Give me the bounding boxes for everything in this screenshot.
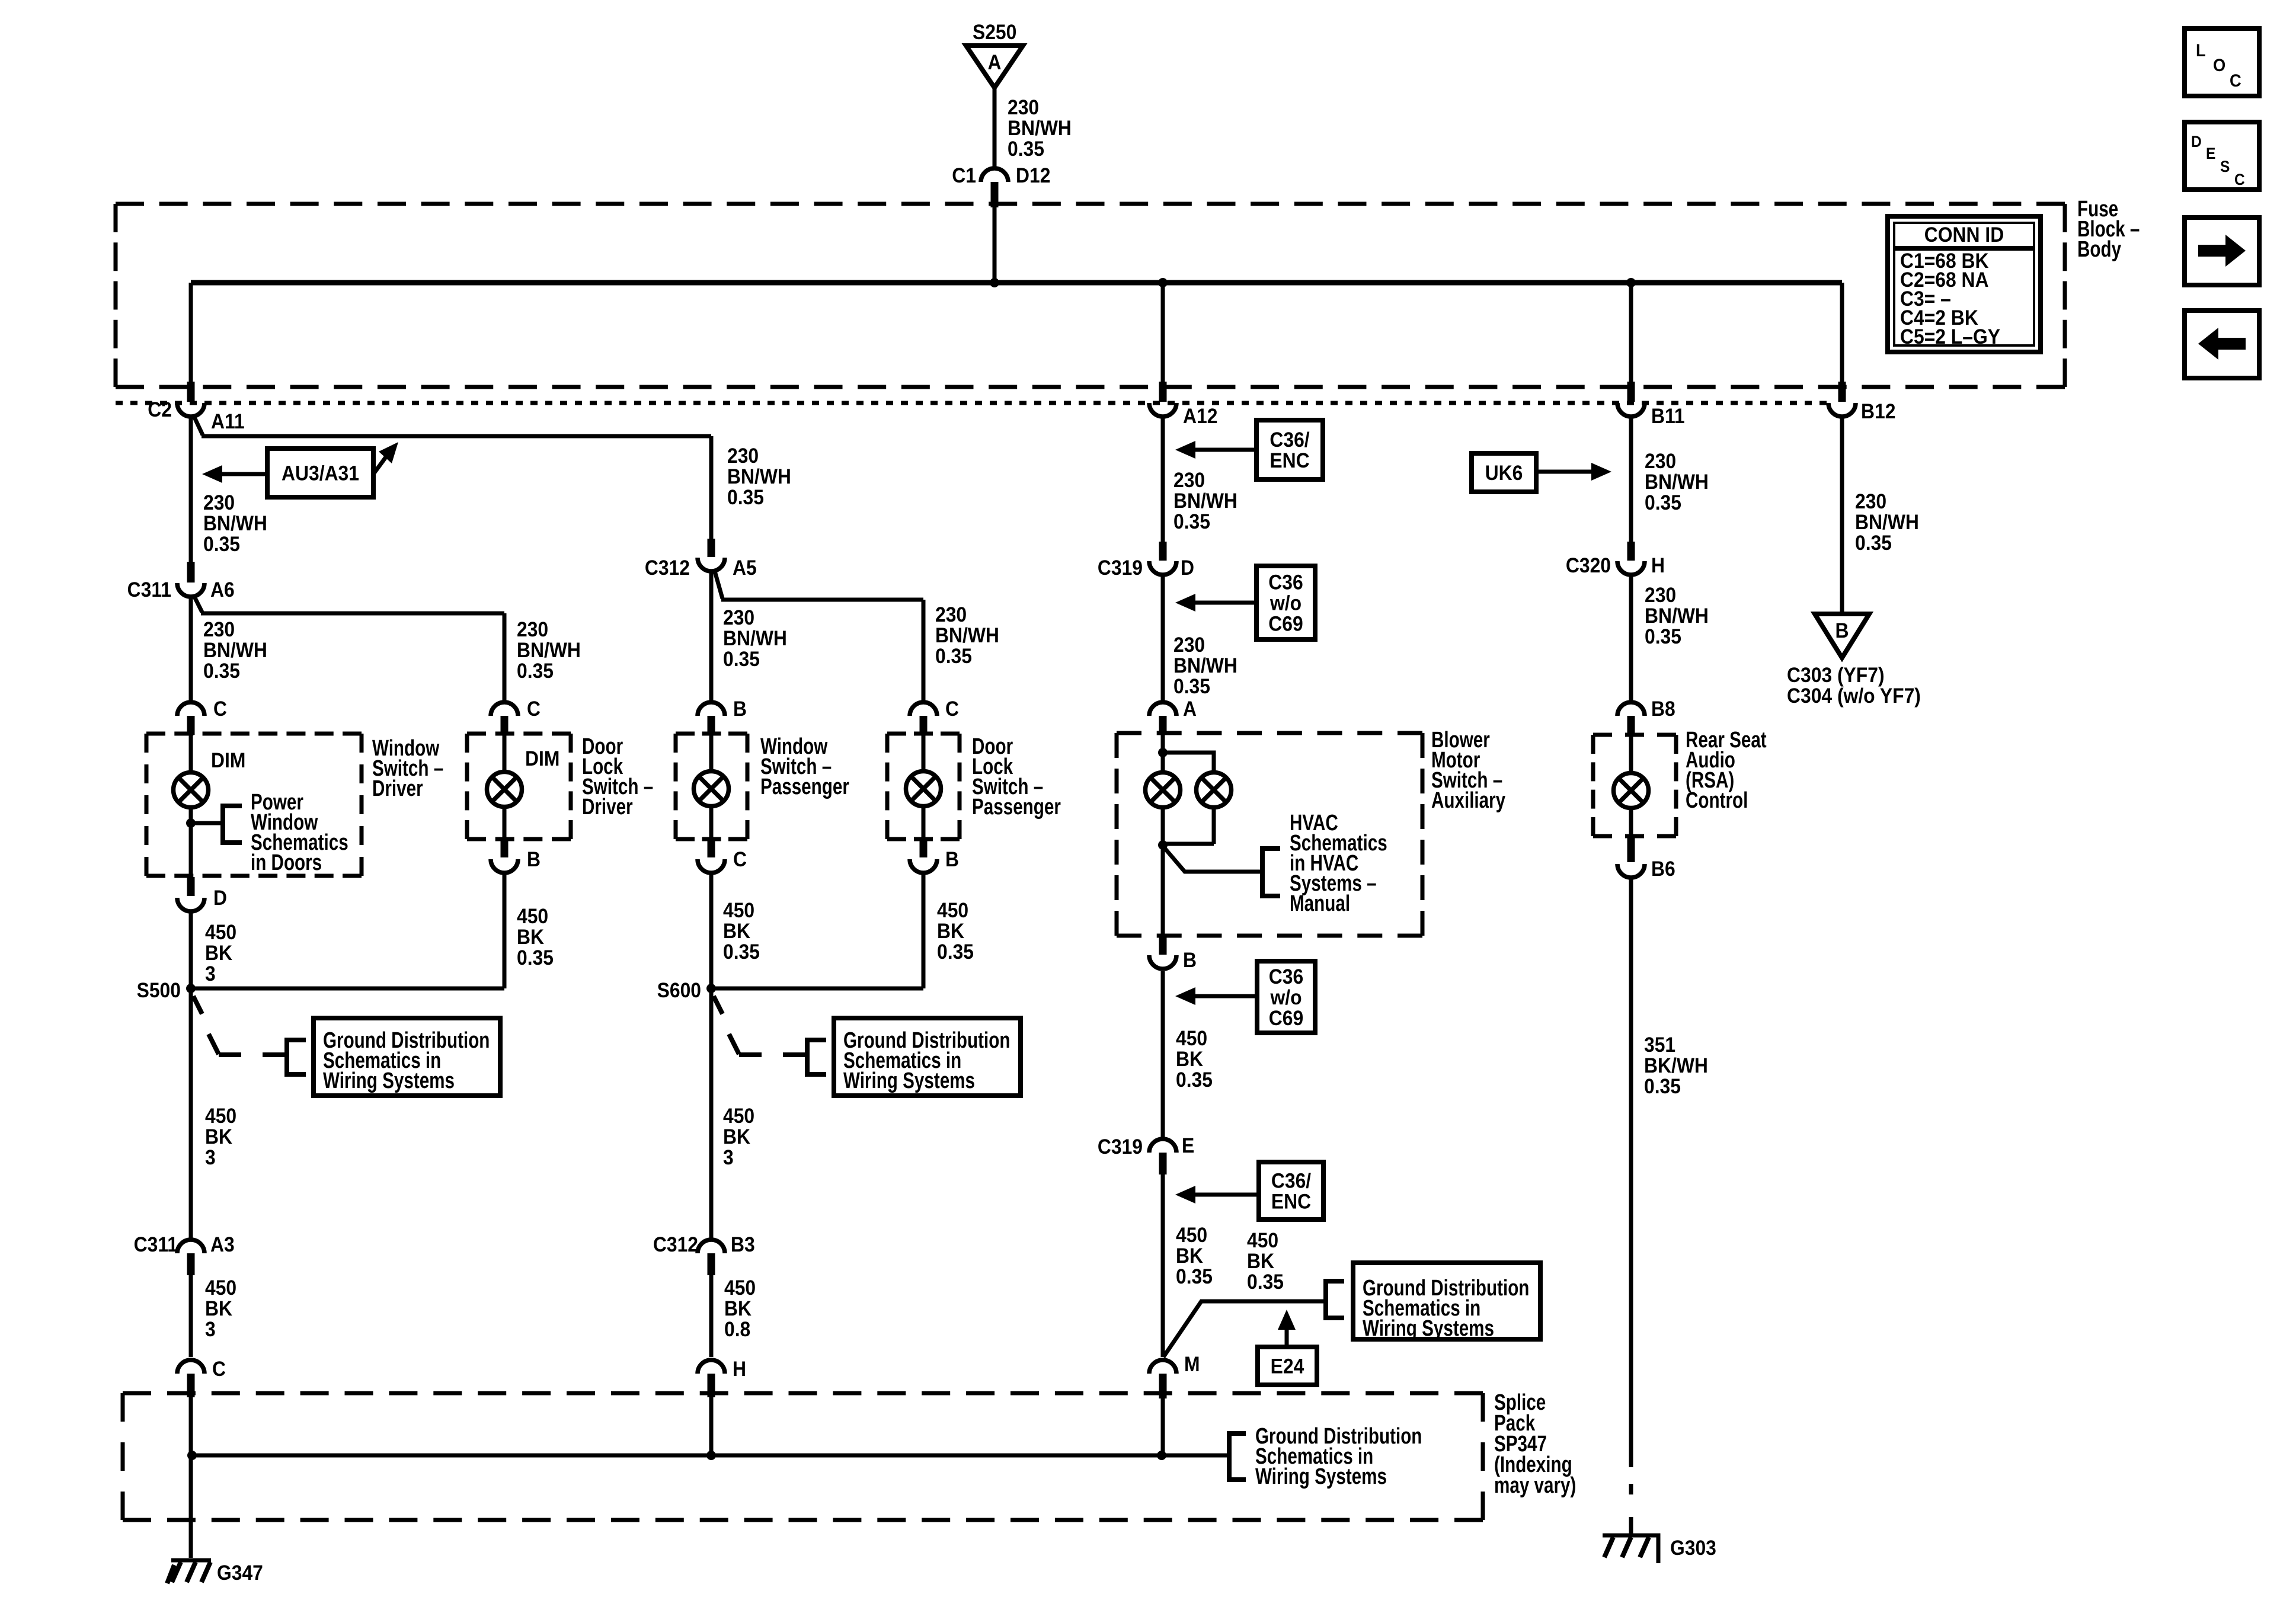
svg-text:D: D xyxy=(213,887,227,910)
svg-text:C69: C69 xyxy=(1268,613,1303,636)
svg-text:0.35: 0.35 xyxy=(1247,1271,1284,1294)
svg-text:H: H xyxy=(1651,555,1665,578)
svg-text:Wiring Systems: Wiring Systems xyxy=(1255,1464,1387,1489)
svg-text:C36: C36 xyxy=(1269,966,1303,989)
svg-text:A6: A6 xyxy=(210,579,235,602)
svg-text:230: 230 xyxy=(1855,491,1886,514)
svg-text:C: C xyxy=(733,849,747,872)
svg-text:3: 3 xyxy=(205,1318,216,1342)
svg-text:S: S xyxy=(2220,158,2230,175)
svg-text:C: C xyxy=(527,698,541,721)
svg-text:BK: BK xyxy=(1176,1245,1203,1268)
svg-text:230: 230 xyxy=(203,619,235,642)
svg-text:450: 450 xyxy=(205,1105,236,1128)
svg-text:E: E xyxy=(1182,1135,1194,1158)
svg-text:BN/WH: BN/WH xyxy=(203,513,267,536)
svg-text:BN/WH: BN/WH xyxy=(1855,511,1919,535)
svg-text:0.35: 0.35 xyxy=(723,941,760,964)
svg-text:BK: BK xyxy=(937,920,964,943)
svg-text:C: C xyxy=(945,698,959,721)
svg-text:DIM: DIM xyxy=(525,748,559,771)
svg-text:B6: B6 xyxy=(1651,858,1675,881)
svg-text:230: 230 xyxy=(727,445,759,468)
svg-text:A11: A11 xyxy=(211,411,245,434)
svg-text:Wiring Systems: Wiring Systems xyxy=(323,1068,455,1093)
svg-text:E24: E24 xyxy=(1271,1355,1304,1378)
svg-text:450: 450 xyxy=(205,921,236,945)
svg-text:0.35: 0.35 xyxy=(1008,138,1044,161)
svg-text:Driver: Driver xyxy=(372,776,423,801)
svg-text:450: 450 xyxy=(723,1105,754,1128)
svg-text:BN/WH: BN/WH xyxy=(1173,655,1237,678)
svg-text:0.35: 0.35 xyxy=(723,648,760,671)
svg-text:Passenger: Passenger xyxy=(760,775,849,799)
svg-text:DIM: DIM xyxy=(211,750,245,773)
svg-text:450: 450 xyxy=(1176,1224,1207,1247)
svg-text:0.35: 0.35 xyxy=(935,645,972,668)
svg-text:C5=2 L–GY: C5=2 L–GY xyxy=(1900,326,2000,349)
svg-text:0.35: 0.35 xyxy=(1176,1069,1213,1092)
svg-text:C303 (YF7): C303 (YF7) xyxy=(1787,664,1885,687)
svg-text:3: 3 xyxy=(205,963,216,986)
svg-text:450: 450 xyxy=(205,1277,236,1300)
svg-text:B: B xyxy=(1183,949,1197,972)
svg-text:B3: B3 xyxy=(731,1234,755,1257)
svg-text:BK: BK xyxy=(724,1298,752,1321)
svg-text:UK6: UK6 xyxy=(1485,462,1523,485)
svg-text:BN/WH: BN/WH xyxy=(203,639,267,663)
svg-text:C36/: C36/ xyxy=(1271,1170,1311,1193)
svg-text:450: 450 xyxy=(723,900,754,923)
svg-text:BK: BK xyxy=(205,942,232,965)
svg-text:C: C xyxy=(2230,71,2241,91)
svg-text:450: 450 xyxy=(517,905,548,929)
svg-text:S600: S600 xyxy=(657,980,701,1003)
svg-text:B11: B11 xyxy=(1651,405,1685,428)
svg-text:B12: B12 xyxy=(1861,401,1895,424)
svg-text:BK: BK xyxy=(723,1126,750,1149)
svg-text:450: 450 xyxy=(724,1277,756,1300)
svg-text:B: B xyxy=(945,849,959,872)
svg-text:0.35: 0.35 xyxy=(517,947,554,970)
svg-text:E: E xyxy=(2206,145,2215,162)
svg-text:C2: C2 xyxy=(148,399,172,422)
svg-text:BN/WH: BN/WH xyxy=(935,625,999,648)
svg-text:B8: B8 xyxy=(1651,698,1675,721)
svg-text:Wiring Systems: Wiring Systems xyxy=(1363,1316,1494,1341)
svg-text:230: 230 xyxy=(935,604,967,627)
svg-text:may vary): may vary) xyxy=(1494,1473,1576,1498)
svg-text:BN/WH: BN/WH xyxy=(1008,117,1072,140)
svg-text:BK/WH: BK/WH xyxy=(1644,1055,1708,1078)
svg-text:D: D xyxy=(1181,557,1194,580)
svg-text:BK: BK xyxy=(205,1298,232,1321)
svg-text:B: B xyxy=(527,849,541,872)
svg-text:230: 230 xyxy=(723,607,754,630)
svg-text:0.35: 0.35 xyxy=(1173,511,1210,534)
svg-text:C1: C1 xyxy=(952,165,976,188)
svg-text:450: 450 xyxy=(1176,1028,1207,1051)
svg-text:BN/WH: BN/WH xyxy=(517,639,581,663)
svg-text:351: 351 xyxy=(1644,1034,1675,1057)
svg-text:S500: S500 xyxy=(137,980,181,1003)
svg-text:BK: BK xyxy=(1176,1048,1203,1071)
svg-text:ENC: ENC xyxy=(1269,450,1309,473)
svg-text:3: 3 xyxy=(205,1147,216,1170)
svg-text:B: B xyxy=(733,698,747,721)
svg-text:0.35: 0.35 xyxy=(517,660,554,683)
svg-text:H: H xyxy=(733,1358,746,1381)
svg-text:0.35: 0.35 xyxy=(1173,676,1210,699)
svg-text:BK: BK xyxy=(517,926,544,949)
svg-text:C312: C312 xyxy=(653,1234,698,1257)
svg-text:C69: C69 xyxy=(1269,1007,1303,1030)
svg-text:0.35: 0.35 xyxy=(937,941,974,964)
svg-text:G303: G303 xyxy=(1670,1537,1716,1560)
svg-text:L: L xyxy=(2196,41,2206,60)
svg-text:230: 230 xyxy=(203,492,235,515)
svg-text:C312: C312 xyxy=(645,557,690,580)
svg-text:BN/WH: BN/WH xyxy=(1645,471,1709,494)
svg-text:0.35: 0.35 xyxy=(1855,532,1892,555)
svg-text:A: A xyxy=(1183,698,1197,721)
svg-text:Wiring Systems: Wiring Systems xyxy=(843,1068,975,1093)
svg-text:C304 (w/o YF7): C304 (w/o YF7) xyxy=(1787,685,1921,708)
svg-text:D12: D12 xyxy=(1016,165,1050,188)
svg-text:BN/WH: BN/WH xyxy=(723,628,787,651)
svg-text:ENC: ENC xyxy=(1271,1190,1311,1214)
svg-text:BK: BK xyxy=(1247,1250,1274,1273)
svg-text:450: 450 xyxy=(1247,1230,1278,1253)
svg-text:0.35: 0.35 xyxy=(1645,492,1681,515)
svg-text:230: 230 xyxy=(1173,469,1205,492)
svg-text:0.35: 0.35 xyxy=(1645,626,1681,649)
svg-text:C319: C319 xyxy=(1098,557,1143,580)
svg-text:450: 450 xyxy=(937,900,968,923)
svg-text:O: O xyxy=(2213,56,2225,75)
svg-text:C: C xyxy=(212,1358,226,1381)
svg-text:A12: A12 xyxy=(1183,405,1217,428)
svg-text:BN/WH: BN/WH xyxy=(1173,490,1237,513)
svg-text:0.35: 0.35 xyxy=(1644,1076,1681,1099)
svg-text:Body: Body xyxy=(2077,237,2121,262)
svg-text:C320: C320 xyxy=(1566,555,1611,578)
svg-text:Driver: Driver xyxy=(582,795,633,820)
svg-text:3: 3 xyxy=(723,1147,734,1170)
svg-text:A5: A5 xyxy=(733,557,757,580)
svg-text:w/o: w/o xyxy=(1269,592,1302,615)
svg-text:BK: BK xyxy=(723,920,750,943)
svg-text:0.35: 0.35 xyxy=(203,533,240,556)
svg-text:A3: A3 xyxy=(210,1234,235,1257)
svg-text:230: 230 xyxy=(517,619,548,642)
svg-text:Passenger: Passenger xyxy=(972,795,1061,820)
svg-text:C311: C311 xyxy=(127,579,171,602)
svg-text:B: B xyxy=(1835,620,1849,643)
svg-text:CONN ID: CONN ID xyxy=(1924,224,2004,247)
svg-text:Auxiliary: Auxiliary xyxy=(1431,788,1505,813)
svg-text:C: C xyxy=(213,698,227,721)
svg-text:BN/WH: BN/WH xyxy=(727,466,791,489)
svg-text:230: 230 xyxy=(1008,97,1039,120)
svg-text:230: 230 xyxy=(1173,634,1205,657)
svg-text:C36: C36 xyxy=(1268,571,1303,594)
svg-text:BN/WH: BN/WH xyxy=(1645,605,1709,628)
svg-text:w/o: w/o xyxy=(1270,987,1302,1010)
svg-text:G347: G347 xyxy=(217,1562,263,1585)
svg-text:D: D xyxy=(2191,133,2202,151)
svg-text:AU3/A31: AU3/A31 xyxy=(282,462,359,485)
svg-text:BK: BK xyxy=(205,1126,232,1149)
svg-text:0.35: 0.35 xyxy=(727,487,764,510)
svg-text:0.35: 0.35 xyxy=(1176,1266,1213,1289)
svg-text:0.8: 0.8 xyxy=(724,1318,750,1342)
svg-text:C: C xyxy=(2234,171,2245,188)
svg-text:in Doors: in Doors xyxy=(251,850,322,875)
svg-text:C36/: C36/ xyxy=(1269,429,1309,452)
svg-text:Control: Control xyxy=(1686,788,1748,813)
svg-text:230: 230 xyxy=(1645,584,1676,607)
svg-text:0.35: 0.35 xyxy=(203,660,240,683)
svg-text:M: M xyxy=(1184,1353,1200,1377)
svg-text:C319: C319 xyxy=(1098,1136,1143,1159)
svg-text:C311: C311 xyxy=(134,1234,178,1257)
svg-text:Manual: Manual xyxy=(1290,891,1350,916)
svg-text:230: 230 xyxy=(1645,450,1676,473)
svg-text:S250: S250 xyxy=(973,21,1016,44)
svg-text:A: A xyxy=(987,52,1001,75)
